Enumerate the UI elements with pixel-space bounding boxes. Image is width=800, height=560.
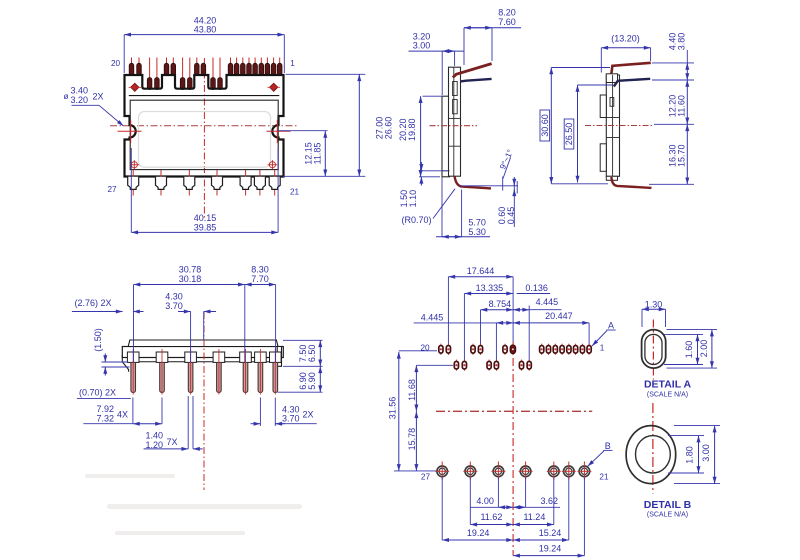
svg-text:(0.70) 2X: (0.70) 2X [79, 388, 116, 398]
dim 17.644 [448, 266, 513, 277]
mounting hole crosses [118, 120, 291, 143]
dim 3.20 / 3.00 [409, 32, 465, 95]
pin slots [453, 82, 458, 114]
bottom pin centerlines [133, 170, 275, 196]
pin number labels [421, 344, 609, 482]
svg-text:26.50: 26.50 [564, 123, 574, 146]
svg-text:27: 27 [421, 472, 431, 481]
svg-text:4.00: 4.00 [476, 496, 494, 506]
svg-text:DETAIL B: DETAIL B [644, 499, 692, 511]
dim 26.50 (boxed) [564, 85, 612, 183]
inner oblong hole [645, 334, 662, 364]
leader A [592, 320, 616, 346]
svg-text:1.30: 1.30 [645, 299, 663, 309]
svg-text:DETAIL A: DETAIL A [644, 378, 691, 390]
svg-text:5.30: 5.30 [468, 227, 486, 237]
svg-text:11.62: 11.62 [480, 512, 502, 522]
svg-text:8.754: 8.754 [489, 299, 512, 309]
right end block [277, 347, 281, 367]
dim (2.76) 2X [72, 298, 144, 312]
outer oblong pad [642, 330, 666, 369]
row 1 pad extension line [399, 350, 437, 352]
svg-text:20.447: 20.447 [545, 311, 573, 321]
mounting hole label 3.40/3.20 2X [64, 86, 124, 126]
faint inner rounded rectangle [139, 112, 271, 168]
svg-text:4X: 4X [117, 409, 128, 419]
svg-text:3.62: 3.62 [541, 496, 559, 506]
dim 0.60 / 0.45 [459, 177, 518, 228]
dim 4.40 / 3.80 [668, 33, 688, 80]
svg-text:4.403.80: 4.403.80 [668, 33, 687, 51]
note (R0.70) with leader [402, 189, 456, 225]
pad center dots [440, 348, 590, 366]
svg-text:30.18: 30.18 [179, 274, 202, 284]
collar lip lines [139, 361, 269, 363]
svg-text:16.3015.70: 16.3015.70 [668, 144, 687, 167]
svg-text:31.56: 31.56 [388, 397, 398, 420]
dim 1.40 / 1.20 7X [144, 396, 203, 450]
svg-text:17.644: 17.644 [467, 266, 495, 276]
svg-text:1.60: 1.60 [684, 341, 694, 359]
svg-text:1: 1 [290, 59, 295, 68]
module body outline [125, 75, 284, 177]
outer pad circle [626, 426, 676, 484]
svg-text:1.80: 1.80 [685, 446, 695, 464]
svg-text:5.70: 5.70 [468, 217, 486, 227]
centerline [652, 403, 654, 494]
dim 31.56 [388, 352, 399, 471]
body flange [442, 96, 450, 177]
svg-text:11.24: 11.24 [523, 512, 545, 522]
dim 19.24 (left) [442, 528, 513, 540]
dim 7.92 / 7.32 4X [83, 398, 162, 424]
dim 7.50 / 6.50 [283, 340, 323, 366]
right dimension chain extension lines [649, 63, 694, 184]
svg-text:(1.50): (1.50) [93, 328, 103, 352]
DETAIL B label [644, 499, 692, 519]
svg-text:0.600.45: 0.600.45 [497, 207, 516, 225]
bottom dim extension verticals [442, 478, 584, 556]
svg-text:1.501.10: 1.501.10 [399, 190, 418, 208]
svg-text:(13.20): (13.20) [611, 34, 640, 44]
dim (13.20) [601, 34, 650, 73]
svg-text:15.78: 15.78 [407, 428, 417, 451]
pin shanks [131, 363, 278, 393]
part centerline [585, 125, 652, 127]
dim (0.70) 2X [77, 388, 131, 399]
svg-text:7.32: 7.32 [97, 413, 115, 423]
dim 3.62 [513, 496, 560, 508]
pin centerlines [133, 349, 275, 395]
dim 0.136 [517, 283, 550, 294]
svg-text:3.00: 3.00 [701, 444, 711, 462]
svg-text:7.60: 7.60 [498, 17, 516, 27]
bottom pin (bent lead) [611, 177, 651, 188]
part vertical centerline [203, 312, 205, 490]
dim (1.50) [93, 328, 130, 375]
svg-text:7X: 7X [167, 437, 178, 447]
dim 5.70 / 5.30 [436, 178, 490, 237]
pad center ticks row1 [441, 344, 589, 355]
dim 1.80 [668, 436, 704, 473]
pin slot [610, 98, 614, 107]
svg-text:3.00: 3.00 [413, 41, 431, 51]
dim 4.30 / 3.70 2X (right) [251, 398, 317, 427]
bottom pad row extension line [394, 470, 437, 472]
left end foot [122, 355, 128, 372]
svg-text:12.2011.60: 12.2011.60 [668, 95, 687, 118]
leader B [588, 441, 613, 467]
dim 11.62 [470, 512, 513, 524]
svg-text:2X: 2X [93, 92, 104, 102]
svg-text:30.60: 30.60 [540, 114, 550, 137]
top pin (bent lead) [611, 63, 650, 74]
dim 40.15 / 39.85 [131, 148, 278, 233]
part horizontal centerline [110, 125, 298, 127]
svg-text:39.85: 39.85 [194, 223, 217, 233]
pin collars [127, 352, 281, 362]
dim 1.30 [642, 299, 666, 327]
svg-text:21: 21 [290, 188, 300, 197]
dim 2.00 [667, 330, 718, 369]
row 2 pad extension line [416, 364, 453, 366]
svg-text:19.24: 19.24 [539, 543, 562, 553]
second pin (bent lead, dark) [461, 79, 492, 82]
dim 4.445 (right) [513, 297, 561, 310]
dim 15.78 [407, 411, 417, 471]
svg-text:12.1511.85: 12.1511.85 [304, 142, 323, 165]
dim 8.30 / 7.70 [245, 265, 276, 362]
svg-text:1: 1 [600, 344, 605, 353]
row 1 pads [439, 346, 591, 354]
footprint horizontal centerline [436, 410, 592, 412]
dim 30.78 / 30.18 [134, 265, 245, 362]
left flanges [600, 95, 606, 171]
svg-text:21: 21 [599, 472, 609, 481]
svg-text:7.70: 7.70 [251, 274, 269, 284]
top pin (bent lead) [453, 64, 492, 78]
top pins above edge [129, 63, 282, 75]
body slab [122, 347, 283, 358]
dim 1.50 / 1.10 [399, 162, 448, 207]
svg-text:27: 27 [107, 185, 117, 194]
dim 20.20 / 19.80 [398, 96, 443, 177]
dim 15.24 [513, 528, 569, 540]
inner hole circle [636, 436, 671, 473]
dim 27.00 / 26.60 [283, 74, 394, 176]
body main case [442, 67, 461, 176]
svg-text:3.70: 3.70 [282, 414, 300, 424]
dim 4.30 / 3.70 (upper) [165, 292, 216, 362]
svg-text:(2.76) 2X: (2.76) 2X [75, 298, 112, 308]
dim 20.447 [513, 311, 589, 323]
centerline [652, 320, 654, 380]
svg-text:B: B [605, 441, 611, 451]
dim 16.30 / 15.70 [668, 124, 688, 184]
part centerline [430, 125, 478, 127]
dim 13.335 [464, 283, 513, 294]
svg-text:43.80: 43.80 [194, 24, 217, 34]
svg-text:40.15: 40.15 [194, 213, 217, 223]
svg-text:3.20: 3.20 [71, 95, 89, 105]
dim 12.20 / 11.60 [668, 80, 688, 124]
svg-text:19.24: 19.24 [467, 528, 490, 538]
top pin centerlines [132, 58, 280, 91]
svg-text:13.335: 13.335 [476, 283, 504, 293]
row 2 pads [454, 361, 531, 369]
svg-text:7.506.50: 7.506.50 [298, 345, 317, 363]
svg-text:3.70: 3.70 [165, 301, 183, 311]
dim 8.20 / 7.60 [464, 8, 521, 66]
DETAIL A label [644, 378, 691, 398]
dim 44.20 / 43.80 [124, 15, 284, 73]
dim 8.754 [481, 299, 514, 310]
svg-text:20.2019.80: 20.2019.80 [398, 118, 417, 141]
dim 19.24 (bottom) [513, 543, 584, 555]
svg-text:8.20: 8.20 [498, 8, 516, 18]
lid rectangle [130, 100, 278, 169]
svg-text:(SCALE N/A): (SCALE N/A) [647, 391, 688, 398]
dim 30.60 (boxed) [540, 68, 610, 184]
svg-text:15.24: 15.24 [539, 528, 562, 538]
dim 4.445 (left) [414, 312, 513, 323]
bottom corner circle-cross markers [130, 160, 278, 169]
body main case [606, 74, 619, 181]
bottom pad crosses [435, 462, 591, 480]
dim 6.90 / 5.90 [278, 366, 323, 392]
pin number labels [107, 59, 299, 197]
dim 1.60 [664, 334, 703, 364]
inner shoulder line [129, 95, 279, 97]
svg-text:3.40: 3.40 [71, 86, 89, 96]
dim 4.00 [470, 496, 513, 508]
row 1 center pad (on centerline) [510, 345, 516, 354]
svg-text:20: 20 [111, 59, 121, 68]
svg-text:11.68: 11.68 [407, 379, 417, 401]
top corner diamond markers [131, 83, 278, 91]
second pin (bent lead, dark) [614, 79, 650, 87]
top bar (chamfered) [128, 340, 278, 347]
footprint vertical centerline [512, 342, 514, 556]
dim 11.24 [513, 512, 554, 524]
svg-text:2.00: 2.00 [699, 340, 709, 358]
pad center ticks row2 [456, 360, 529, 371]
svg-text:ø: ø [64, 91, 69, 101]
svg-text:20: 20 [421, 344, 431, 353]
svg-text:0.136: 0.136 [525, 283, 548, 293]
svg-text:(R0.70): (R0.70) [402, 215, 432, 225]
faint scan smudges [85, 474, 302, 535]
svg-text:(SCALE N/A): (SCALE N/A) [647, 511, 688, 518]
part vertical centerline [203, 58, 205, 218]
pins inside top notches [147, 78, 222, 90]
svg-text:27.0026.60: 27.0026.60 [375, 117, 394, 140]
svg-text:A: A [608, 320, 614, 330]
svg-text:4.445: 4.445 [421, 312, 444, 322]
svg-text:6.905.90: 6.905.90 [298, 372, 317, 390]
dim 11.68 [407, 365, 417, 411]
dim 12.15 / 11.85 [278, 131, 328, 177]
dim 3.00 [674, 426, 720, 484]
dim extension verticals to pads [448, 277, 589, 361]
angle dim 9°~1° [497, 148, 515, 179]
bottom pin (bent lead) [455, 176, 491, 188]
svg-text:4.445: 4.445 [536, 297, 559, 307]
svg-text:2X: 2X [303, 410, 314, 420]
bottom row pads (circles) [437, 466, 590, 477]
bottom pins [128, 177, 281, 190]
